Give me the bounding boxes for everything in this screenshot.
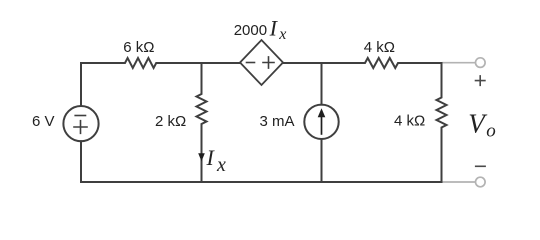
svg-text:4 kΩ: 4 kΩ bbox=[394, 113, 425, 130]
svg-text:6 V: 6 V bbox=[32, 113, 55, 130]
svg-text:2 kΩ: 2 kΩ bbox=[155, 113, 186, 130]
svg-text:6 kΩ: 6 kΩ bbox=[123, 39, 154, 56]
svg-text:2000: 2000 bbox=[234, 22, 267, 39]
svg-text:Ix: Ix bbox=[206, 145, 227, 176]
svg-text:4 kΩ: 4 kΩ bbox=[364, 39, 395, 56]
svg-text:Vo: Vo bbox=[468, 109, 496, 142]
svg-text:3 mA: 3 mA bbox=[260, 113, 295, 130]
svg-text:Ix: Ix bbox=[269, 16, 287, 44]
